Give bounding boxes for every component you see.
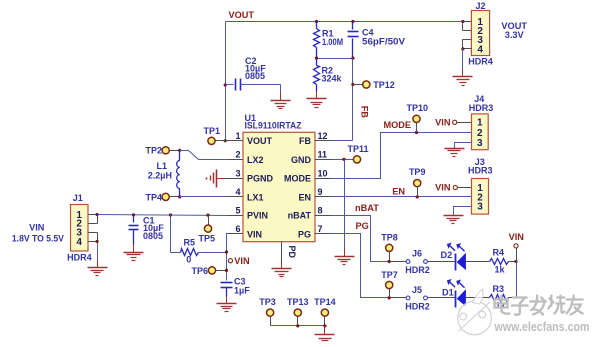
node FB junction at R1/R2 [315,57,318,60]
label C1 value [143,215,164,241]
J4 pin numbers [477,118,483,149]
svg-text:EN: EN [298,192,311,202]
svg-text:R5: R5 [184,238,196,248]
label R3 value [493,284,507,311]
net label PG [356,221,369,231]
wire VIN pin 6 drop [227,234,229,281]
svg-text:LX1: LX1 [247,192,264,202]
svg-text:TP8: TP8 [381,233,398,243]
node EN junction at TP9 [416,195,419,198]
node bus junction TP14 [323,324,326,327]
testpoint TP7 [386,281,393,297]
svg-text:TP13: TP13 [287,297,309,307]
svg-text:HDR3: HDR3 [468,166,493,176]
wire J1 ground drop [97,242,99,260]
wire J2 ground drop [462,49,464,69]
svg-text:HDR4: HDR4 [468,56,493,66]
svg-text:LX2: LX2 [247,155,264,165]
U1 right pin names [284,136,312,239]
diode D1 (LED) [448,280,466,307]
label J1 [73,193,83,203]
wire PG net [331,234,390,298]
svg-text:HDR2: HDR2 [405,265,430,275]
testpoint TP14 [321,309,328,326]
label TP14 [314,297,336,307]
ground below J1 [88,260,108,276]
svg-text:0805: 0805 [143,231,163,241]
svg-text:7: 7 [318,224,323,234]
ground below C1 [124,245,144,261]
svg-text:TP11: TP11 [348,144,369,154]
svg-text:TP7: TP7 [381,270,398,280]
svg-text:4: 4 [235,187,240,197]
J3 pin numbers [477,183,483,213]
J2 pin numbers [477,17,483,55]
node FB junction at C4 [351,57,354,60]
ground below R2 [307,92,327,108]
U1 right pin stubs 7-12 [315,141,331,234]
svg-text:nBAT: nBAT [355,203,379,213]
svg-text:1µF: 1µF [234,285,250,295]
label C4 value [362,28,405,47]
svg-text:TP2: TP2 [145,146,162,156]
svg-text:1.00M: 1.00M [322,37,343,47]
testpoint TP11 [353,156,360,163]
testpoint TP4 [162,193,179,200]
wire J4 pin 3 ground [455,143,472,149]
svg-text:0: 0 [186,255,191,265]
ground PGND (sideways) [207,170,225,188]
label J1 HDR4 [67,252,92,262]
connector J4 body [472,114,489,150]
terminal VIN above R4 [509,232,525,262]
ground below PD pin [272,261,292,277]
svg-text:FB: FB [299,136,311,146]
resistor R5 [181,249,199,256]
label J2 [475,1,485,11]
capacitor C2 [226,79,281,93]
terminal VIN at J4 pin 1 [435,117,471,127]
U1 left pin names [247,136,274,239]
svg-text:EN: EN [392,187,405,197]
ground below TP14 [315,335,335,344]
wire VOUT vertical to pin 1 [225,22,227,141]
label D1 [442,287,454,297]
wire nBAT net [331,216,390,262]
label C3 value [234,277,250,296]
node J1 pin1 junction [96,213,99,216]
J1 pins 1-2 bracket [89,215,98,224]
wire VOUT rail (top) [226,21,463,23]
svg-text:HDR4: HDR4 [67,252,92,262]
label J6 HDR2 [405,265,430,275]
net label VOUT [229,10,255,20]
label TP7 [381,270,398,280]
label TP5 [199,234,216,244]
wire R4 to VIN node [509,261,517,263]
node VIN junction at TP6 [225,269,228,272]
svg-text:9: 9 [318,187,323,197]
label J6 [412,249,422,259]
svg-text:10: 10 [318,168,328,178]
svg-text:2.2µH: 2.2µH [148,171,172,181]
svg-text:TP1: TP1 [204,126,221,136]
wire EN net [331,196,472,198]
testpoint TP8 [386,244,393,261]
svg-text:J1: J1 [73,193,83,203]
wire D1 to R3 [466,297,490,299]
svg-text:56pF/50V: 56pF/50V [362,37,405,47]
op-amp U1 ISL9110IRTAZ body [243,132,315,241]
svg-text:VIN: VIN [435,183,451,193]
wire FB node row [317,58,353,60]
svg-text:1k: 1k [495,264,506,274]
ground below C3 [217,297,237,312]
svg-text:VIN: VIN [435,117,451,127]
diode D2 (LED) [448,244,466,271]
testpoint TP5 [204,216,211,233]
label D2 [441,250,453,260]
wire TP14 ground drop [324,326,326,335]
svg-text:PVIN: PVIN [247,211,268,221]
svg-text:nBAT: nBAT [288,211,312,221]
node junction pin1/TP1 [224,139,227,142]
node MODE junction at TP10 [415,131,418,134]
svg-text:12: 12 [318,131,328,141]
J1 pins 3-4 bracket [89,233,98,242]
resistor R3 [490,295,509,302]
svg-text:6: 6 [235,224,240,234]
label VOUT 3.3V [501,21,527,40]
svg-text:VOUT: VOUT [247,136,273,146]
svg-text:3: 3 [477,202,483,213]
svg-text:5: 5 [235,205,240,215]
node VOUT junction at R1 [315,20,318,23]
label TP13 [287,297,309,307]
svg-text:TP5: TP5 [199,234,216,244]
svg-text:3: 3 [477,138,483,149]
wire PGND pin 3 [225,178,229,180]
svg-text:2: 2 [235,150,240,160]
inductor L1 [177,151,180,197]
label R4 value [493,248,506,275]
svg-text:www.elecfans.com: www.elecfans.com [494,320,590,334]
label C2 value [245,56,266,81]
label U1 designator [245,113,302,131]
node VIN junction at TP5 [206,214,209,217]
svg-text:VIN: VIN [247,229,262,239]
svg-text:HDR3: HDR3 [469,103,494,113]
testpoint TP10 [413,115,420,132]
ground below C2 [271,93,291,109]
svg-text:1: 1 [235,131,240,141]
testpoint TP6 [208,267,226,274]
node GND junction [342,158,345,161]
header J5 pin circles [390,296,455,300]
svg-text:11: 11 [318,150,328,160]
svg-text:TP14: TP14 [314,297,336,307]
wire R5 branch [171,215,181,253]
testpoint TP2 [162,147,179,154]
svg-text:MODE: MODE [384,120,412,130]
watermark text cn [495,296,583,315]
label J5 HDR2 [405,301,430,311]
svg-text:3: 3 [235,168,240,178]
svg-text:1.8V TO 5.5V: 1.8V TO 5.5V [12,234,65,244]
label R1 value [322,29,343,47]
svg-text:PGND: PGND [247,174,274,184]
wire LX2 to pin 2 [180,151,229,160]
svg-text:4: 4 [76,237,82,248]
label TP11 [348,144,369,154]
svg-text:TP10: TP10 [407,103,429,113]
svg-text:VIN: VIN [509,232,525,242]
svg-text:PG: PG [356,221,369,231]
svg-text:3.3V: 3.3V [505,30,525,40]
node LX1 junction at TP4 [178,195,181,198]
J1 pin numbers [76,210,82,248]
label TP10 [407,103,429,113]
svg-text:TP3: TP3 [259,297,276,307]
net label MODE [384,120,412,130]
svg-text:MODE: MODE [284,174,311,184]
node PG junction at TP7 [388,296,391,299]
connector J1 body [71,205,89,252]
wire FB vertical to pin 12 [331,59,353,141]
svg-text:D1: D1 [442,287,454,297]
net label EN [392,187,405,197]
J2 pins 3-4 bracket [463,40,472,49]
ground below J4 [445,149,465,157]
resistor R1 [314,22,320,59]
node J1 pin4 junction [96,240,99,243]
svg-text:GND: GND [291,155,312,165]
J2 pins 1-2 bracket [463,22,472,31]
svg-text:8: 8 [318,205,323,215]
connector J3 body [472,179,489,215]
svg-text:HDR2: HDR2 [405,301,430,311]
ground below GND pin [335,249,355,265]
wire MODE net [331,133,472,179]
label TP3 [259,297,276,307]
U1 right pin numbers [318,131,328,234]
svg-text:0805: 0805 [245,71,265,81]
svg-text:J5: J5 [412,285,422,295]
terminal VIN at J3 pin 1 [435,183,471,193]
label TP6 [191,266,208,276]
header J6 pin circles [390,260,455,264]
node VIN junction at R5 right [225,250,228,253]
label VIN input voltage [12,223,65,244]
wire LX1 to pin 4 [180,196,229,198]
node VIN junction at R4 [514,260,517,263]
U1 left pin numbers [235,131,240,234]
svg-text:VIN: VIN [234,256,250,266]
svg-text:TP12: TP12 [373,80,395,90]
label J2 HDR4 [468,56,493,66]
svg-text:TP4: TP4 [145,193,162,203]
node VOUT junction at C4 [351,20,354,23]
node VIN junction at R5 [169,213,172,216]
watermark url [494,320,590,334]
wire R5 to VIN node [199,252,227,254]
testpoint TP1 [208,137,229,144]
wire GND pin 11 [331,159,354,161]
label TP2 [145,146,162,156]
connector J2 body [471,11,489,56]
label TP9 [409,167,426,177]
svg-text:TP9: TP9 [409,167,426,177]
node FB junction at TP12 [351,83,354,86]
wire R3 to VIN node [509,297,517,299]
terminal VIN (net stub) [228,256,250,266]
wire VIN drop to R3 [516,262,518,298]
label L1 value [148,161,172,180]
label TP4 [145,193,162,203]
capacitor C4 [348,22,359,59]
label J3 HDR3 [468,166,493,176]
wire D2 to R4 [466,261,490,263]
svg-text:D2: D2 [441,250,453,260]
node LX2 junction at TP2 [178,149,181,152]
resistor R4 [490,259,509,265]
testpoint TP12 [353,81,370,88]
net label nBAT [355,203,379,213]
label J4 HDR3 [469,103,494,113]
wire testpoint bus [271,325,325,327]
U1 left pin stubs 1-6 [229,141,243,234]
testpoint TP3 [267,309,274,326]
ground below J2 [453,69,473,86]
svg-text:R3: R3 [493,284,505,294]
label J4 [474,94,484,104]
label TP8 [381,233,398,243]
svg-text:4: 4 [477,44,483,55]
node bus junction TP13 [296,324,299,327]
node VIN junction at C1 [132,213,135,216]
wire GND ground drop [344,160,346,249]
ground below J3 [444,216,464,224]
testpoint TP9 [414,180,421,197]
svg-text:ISL9110IRTAZ: ISL9110IRTAZ [245,121,302,131]
node VOUT junction at C2 [224,83,227,86]
resistor R2 [314,59,320,92]
svg-text:J2: J2 [475,1,485,11]
label R2 value [322,65,343,83]
wire VIN rail [98,215,229,216]
svg-text:R4: R4 [493,248,505,258]
svg-text:PD: PD [287,246,297,259]
label R5 value [184,238,196,265]
node VOUT junction at J2 [461,20,464,23]
label TP1 [204,126,221,136]
capacitor C1 [129,215,139,245]
wire J3 pin 3 ground [454,207,472,216]
svg-text:J6: J6 [412,249,422,259]
testpoint TP13 [294,309,301,326]
svg-text:VOUT: VOUT [229,10,255,20]
label J3 [475,157,485,167]
label pin PD (rotated) [287,246,297,259]
label J5 [412,285,422,295]
net label FB (rotated) [359,106,369,119]
svg-text:FB: FB [359,106,369,119]
svg-text:TP6: TP6 [191,266,208,276]
label TP12 [373,80,395,90]
capacitor C3 [221,283,233,297]
svg-text:PG: PG [298,229,311,239]
svg-text:VIN: VIN [29,223,45,233]
U1 pin PD stub [281,242,283,261]
node J2 pin4 junction [461,47,464,50]
svg-text:324k: 324k [322,74,343,84]
watermark logo [458,289,492,335]
node nBAT junction at TP8 [388,260,391,263]
